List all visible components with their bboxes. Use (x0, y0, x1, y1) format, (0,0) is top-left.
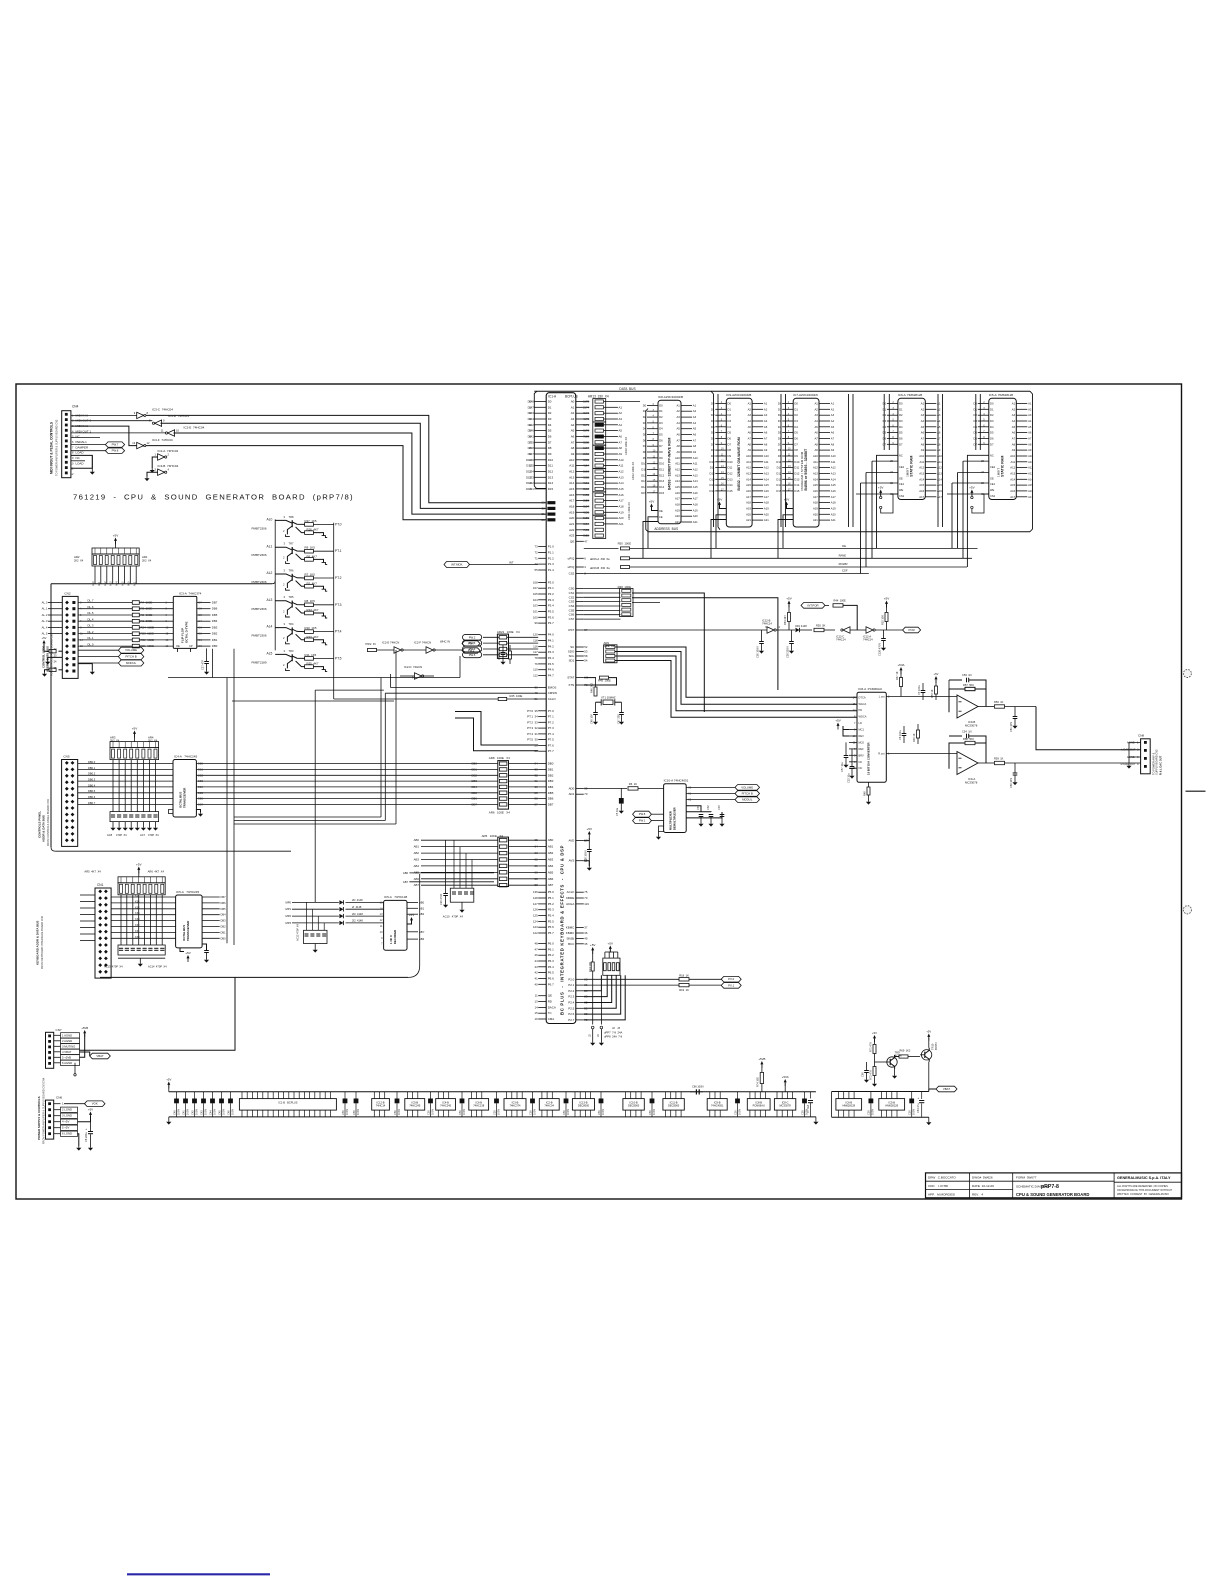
svg-text:A5: A5 (748, 425, 752, 429)
svg-text:30: 30 (542, 506, 546, 510)
svg-text:A22: A22 (569, 528, 575, 532)
svg-text:A9: A9 (676, 450, 680, 454)
svg-text:74HC14: 74HC14 (863, 638, 873, 642)
svg-text:100N: 100N (912, 1109, 916, 1115)
svg-text:C50: C50 (867, 1110, 871, 1115)
svg-text:A5: A5 (1028, 425, 1032, 429)
svg-text:A21: A21 (675, 520, 680, 524)
svg-text:A14: A14 (1010, 477, 1015, 481)
svg-text:CMA: CMA (548, 1017, 555, 1021)
svg-text:100N: 100N (176, 1109, 180, 1115)
svg-text:AR2: AR2 (74, 555, 80, 559)
svg-text:A7: A7 (693, 438, 697, 442)
decoder outputs (407, 901, 418, 903)
MIDI wire 1 (146, 415, 547, 502)
svg-text:100: 100 (533, 615, 538, 619)
ic1a data pins D0-D15 (534, 401, 546, 403)
inverter IC3-B 74HC04 (158, 469, 165, 475)
svg-text:D12: D12 (659, 473, 664, 477)
svg-text:DB0.5: DB0.5 (88, 789, 96, 793)
svg-text:P7.1: P7.1 (548, 715, 554, 719)
bias caps near opamp2 (903, 726, 905, 733)
svg-text:POR: POR (909, 628, 915, 632)
ground CN4 (71, 455, 92, 468)
svg-text:OE: OE (899, 476, 903, 480)
svg-text:+5V: +5V (884, 597, 890, 601)
svg-text:53: 53 (584, 650, 588, 654)
ic IC3-A 74HC374 octal flip flop (173, 596, 197, 648)
ic U-IC1-A BC PLUS cpu (546, 393, 576, 1024)
svg-text:R72 47K: R72 47K (869, 1070, 873, 1080)
AR2 column drops (94, 566, 96, 584)
svg-text:MP1: MP1 (285, 907, 291, 911)
svg-text:PCM69AU: PCM69AU (753, 1104, 765, 1108)
svg-text:13: 13 (380, 912, 383, 916)
svg-text:IC3-A 74HC374: IC3-A 74HC374 (179, 592, 202, 596)
svg-text:105: 105 (533, 592, 538, 596)
decoupling cap 13 (804, 1092, 806, 1099)
bus vertical pair 6 D-entry IC5 (975, 394, 977, 450)
svg-text:IC3-D 74HC04: IC3-D 74HC04 (168, 414, 189, 418)
svg-text:D10: D10 (728, 460, 733, 464)
svg-text:MC1: MC1 (859, 728, 865, 732)
svg-text:2I2 4148: 2I2 4148 (352, 919, 363, 923)
opamp2 output to R59 (978, 762, 994, 764)
svg-text:A6: A6 (571, 435, 575, 439)
svg-text:IC2-E 74HC04: IC2-E 74HC04 (184, 426, 205, 430)
svg-text:P5.2: P5.2 (548, 902, 554, 906)
svg-text:CKD I. KITRI: CKD I. KITRI (928, 1184, 948, 1188)
wire R/WE row with resistor aR23-A (576, 557, 584, 559)
svg-text:D3: D3 (990, 419, 994, 423)
svg-text:2: 2 (283, 663, 285, 667)
inverter IC12-C 74HC14 (843, 627, 850, 633)
svg-text:PMBT2306: PMBT2306 (252, 634, 267, 638)
svg-text:DL.0: DL.0 (88, 642, 94, 646)
svg-text:A8: A8 (1012, 442, 1016, 446)
svg-text:R6 4K7: R6 4K7 (307, 555, 318, 559)
svg-text:A15: A15 (569, 487, 575, 491)
svg-text:AB5: AB5 (548, 870, 554, 874)
svg-text:PMBT2306: PMBT2306 (252, 553, 267, 557)
svg-text:DB1: DB1 (212, 638, 218, 642)
svg-text:A4: A4 (921, 419, 925, 423)
svg-text:D3: D3 (974, 419, 978, 423)
svg-text:C50: C50 (908, 1110, 912, 1115)
svg-text:A8: A8 (676, 444, 680, 448)
svg-text:+5VA: +5VA (897, 663, 904, 667)
svg-text:49: 49 (584, 936, 588, 940)
svg-text:D5: D5 (883, 431, 887, 435)
svg-text:CN5: CN5 (63, 755, 69, 759)
svg-text:A10: A10 (937, 454, 942, 458)
svg-text:AR13 330 X4: AR13 330 X4 (588, 395, 609, 399)
svg-text:39: 39 (584, 786, 588, 790)
svg-text:D9: D9 (728, 454, 732, 458)
svg-text:REV: REV (859, 734, 865, 738)
svg-text:IC1-A: IC1-A (548, 395, 557, 399)
svg-text:DECODER: DECODER (393, 930, 397, 944)
svg-text:RD: RD (548, 1000, 552, 1004)
svg-text:C8 220u: C8 220u (84, 1132, 88, 1142)
svg-text:D9: D9 (548, 452, 552, 456)
svg-text:DTCA: DTCA (859, 695, 866, 699)
svg-text:100N: 100N (532, 1109, 536, 1115)
ic IC10-B DEC8000 power box (623, 1099, 644, 1111)
svg-text:D1: D1 (711, 407, 715, 411)
svg-text:D4: D4 (778, 425, 782, 429)
P7 bracket wires (455, 712, 538, 746)
svg-text:CS2: CS2 (899, 494, 905, 498)
svg-text:A17: A17 (1028, 495, 1033, 499)
svg-text:A11: A11 (569, 464, 574, 468)
svg-text:K33: K33 (135, 917, 140, 921)
svg-text:100N: 100N (652, 1109, 656, 1115)
svg-text:pRP7-8: pRP7-8 (1041, 1184, 1059, 1190)
battery ram rail (832, 1091, 929, 1093)
svg-text:P4.6: P4.6 (548, 668, 554, 672)
svg-text:104: 104 (533, 598, 538, 602)
svg-text:A21: A21 (764, 518, 769, 522)
tag VBAT cn7 (90, 1053, 111, 1059)
svg-text:D5: D5 (643, 433, 647, 437)
AB6 AB7 wires top (409, 872, 494, 874)
svg-text:C50: C50 (393, 1110, 397, 1115)
svg-text:DATE 10-12-00: DATE 10-12-00 (972, 1184, 994, 1188)
svg-text:A5: A5 (764, 425, 768, 429)
svg-text:A3: A3 (921, 413, 925, 417)
svg-text:A10: A10 (569, 458, 575, 462)
svg-text:1MBIT: 1MBIT (906, 468, 910, 477)
ic IC9 GM-WAVE ROM (726, 398, 752, 527)
svg-text:A14: A14 (937, 477, 942, 481)
svg-text:A4: A4 (937, 419, 941, 423)
svg-text:R25 100E: R25 100E (510, 694, 523, 698)
svg-text:D6: D6 (548, 435, 552, 439)
svg-text:A6: A6 (764, 431, 768, 435)
svg-text:70: 70 (584, 896, 588, 900)
svg-text:P3.1: P3.1 (548, 586, 554, 590)
svg-text:A21: A21 (831, 518, 836, 522)
svg-text:A12: A12 (619, 470, 624, 474)
svg-text:A1: A1 (1012, 402, 1016, 406)
svg-text:100N: 100N (871, 1109, 875, 1115)
svg-text:AB7: AB7 (403, 880, 409, 884)
svg-text:D15: D15 (728, 489, 733, 493)
svg-text:AB7: AB7 (548, 883, 554, 887)
svg-text:5 +5V: 5 +5V (62, 1126, 69, 1130)
ic IC3-A kb 74HC245 transceiver (176, 895, 203, 948)
svg-text:A3: A3 (676, 415, 680, 419)
svg-text:A19: A19 (569, 510, 575, 514)
svg-text:A14: A14 (813, 477, 818, 481)
ic IC4-A 74HC245 transceiver (173, 760, 196, 818)
svg-text:A20: A20 (764, 512, 769, 516)
ic IC8-A PCM69AU DAC (857, 692, 886, 782)
svg-text:D0: D0 (528, 400, 532, 404)
svg-text:D8: D8 (643, 450, 647, 454)
OE long verticals right (977, 547, 979, 549)
svg-text:D8: D8 (528, 446, 532, 450)
svg-text:D2: D2 (899, 413, 903, 417)
svg-text:J2 J3: J2 J3 (612, 1026, 620, 1030)
svg-text:D4: D4 (659, 427, 663, 431)
svg-text:A13: A13 (831, 472, 836, 476)
svg-text:D15: D15 (710, 489, 715, 493)
transistor TR9 BC547 (887, 1057, 897, 1067)
CN1 left pin wires (80, 894, 95, 896)
svg-text:ADDR & DATA BUS: ADDR & DATA BUS (42, 815, 46, 842)
svg-text:PT.3: PT.3 (527, 726, 533, 730)
ic IC5-A STATIC RAM (989, 398, 1017, 499)
svg-text:D11: D11 (777, 466, 782, 470)
svg-text:3: 3 (284, 515, 286, 519)
inverter IC12-A 74HC14 (866, 627, 873, 633)
bus vertical pair 2 (780, 394, 782, 527)
svg-text:+5V: +5V (42, 636, 47, 640)
svg-text:D2: D2 (990, 413, 994, 417)
svg-text:118: 118 (533, 639, 538, 643)
svg-text:D6: D6 (794, 437, 798, 441)
svg-text:6 LGND: 6 LGND (62, 1132, 72, 1136)
svg-text:D4: D4 (728, 425, 732, 429)
decoupling cap 9 (565, 1092, 567, 1099)
svg-text:CE2: CE2 (899, 465, 905, 469)
svg-text:D1: D1 (643, 409, 647, 413)
resistor column R4-R21 680R (132, 601, 139, 605)
svg-text:CS6: CS6 (569, 613, 575, 617)
ic IC5-B 74HC245 power box (405, 1099, 425, 1111)
svg-text:DB2: DB2 (212, 632, 218, 636)
svg-text:A9: A9 (748, 448, 752, 452)
svg-text:2: 2 (283, 636, 285, 640)
svg-text:73: 73 (535, 545, 539, 549)
svg-text:IC9-AZ3C32004/B: IC9-AZ3C32004/B (726, 393, 751, 397)
svg-text:P2.6: P2.6 (568, 1012, 574, 1016)
svg-text:PW.8: PW.8 (639, 812, 646, 816)
CN8 ground pins (1129, 743, 1141, 758)
svg-text:32: 32 (535, 726, 539, 730)
svg-text:A2: A2 (1028, 407, 1032, 411)
svg-text:A5: A5 (831, 425, 835, 429)
svg-text:DB0.0: DB0.0 (88, 760, 96, 764)
svg-text:+5V: +5V (784, 498, 790, 502)
svg-text:PW2 IN: PW2 IN (366, 642, 376, 646)
svg-text:100N: 100N (345, 1109, 349, 1115)
decoupling cap 4 (396, 1092, 398, 1099)
connector CN1 keyboard (95, 888, 111, 978)
svg-text:P5.0: P5.0 (548, 890, 554, 894)
svg-text:PITCH B: PITCH B (742, 792, 753, 796)
svg-text:DL.1: DL.1 (88, 636, 94, 640)
svg-text:MC33078: MC33078 (965, 723, 978, 727)
svg-text:C31: C31 (696, 805, 700, 810)
svg-text:P2.0: P2.0 (568, 977, 574, 981)
svg-text:P5.1: P5.1 (548, 896, 554, 900)
svg-text:100N: 100N (356, 1109, 360, 1115)
svg-text:D4: D4 (199, 619, 203, 623)
svg-text:D4: D4 (643, 427, 647, 431)
svg-text:P6.2: P6.2 (548, 953, 554, 957)
svg-text:A0: A0 (571, 400, 575, 404)
svg-text:D11: D11 (641, 468, 646, 472)
svg-text:A21: A21 (746, 518, 751, 522)
svg-text:A16: A16 (1010, 489, 1015, 493)
CN6 lgnd drop (78, 1134, 79, 1146)
svg-text:CN2: CN2 (64, 591, 70, 595)
svg-text:B4532 - 32MBIT GM-WAVE ROM: B4532 - 32MBIT GM-WAVE ROM (737, 437, 741, 490)
svg-text:AR1: AR1 (142, 555, 148, 559)
svg-text:A2: A2 (831, 407, 835, 411)
tag INT.POR (801, 603, 825, 609)
svg-text:R44 100E: R44 100E (834, 599, 847, 603)
svg-text:D1: D1 (883, 407, 887, 411)
svg-text:1 AGND: 1 AGND (62, 1033, 72, 1037)
svg-text:3: 3 (284, 542, 286, 546)
svg-text:31: 31 (535, 732, 539, 736)
svg-text:A13: A13 (813, 472, 818, 476)
svg-text:D11: D11 (794, 466, 799, 470)
svg-text:A15: A15 (831, 483, 836, 487)
svg-text:A8: A8 (571, 446, 575, 450)
MIDI wire 4 (146, 446, 547, 520)
mux other pins to caps (686, 806, 701, 812)
svg-text:INT: INT (509, 561, 514, 565)
svg-text:D6: D6 (990, 437, 994, 441)
svg-text:P7.2: P7.2 (548, 720, 554, 724)
svg-text:DL.2: DL.2 (88, 630, 94, 634)
svg-text:A12: A12 (693, 468, 698, 472)
svg-text:10: 10 (380, 930, 383, 934)
svg-text:122: 122 (533, 931, 538, 935)
svg-text:REV. 4: REV. 4 (972, 1192, 983, 1196)
svg-text:PW.1: PW.1 (468, 649, 475, 653)
svg-text:D7: D7 (528, 440, 532, 444)
CN2 DL wires to resistor column (78, 602, 132, 604)
svg-text:C5 100u: C5 100u (917, 685, 921, 695)
svg-text:A15: A15 (937, 483, 942, 487)
svg-text:A17: A17 (764, 495, 769, 499)
svg-text:D7: D7 (883, 442, 887, 446)
svg-text:CALO: CALO (548, 697, 557, 701)
ic1a AVD pin with cap C38 (576, 840, 584, 842)
svg-text:C8 100u: C8 100u (898, 730, 902, 740)
svg-text:DB2: DB2 (221, 925, 227, 929)
IC5-A control wires (967, 455, 988, 567)
svg-text:2I0 4148: 2I0 4148 (352, 912, 363, 916)
svg-text:DB3: DB3 (221, 919, 227, 923)
svg-text:QE: QE (548, 994, 552, 998)
svg-text:A14: A14 (746, 477, 751, 481)
ic1a DB pins with resistor grid AR8 (538, 763, 546, 765)
svg-text:K32: K32 (135, 923, 140, 927)
svg-text:1: 1 (155, 453, 157, 457)
tag VOK (85, 1101, 106, 1107)
svg-text:DEC8000: DEC8000 (578, 1104, 590, 1108)
svg-text:KBME: KBME (566, 896, 574, 900)
svg-text:PT.5: PT.5 (335, 656, 342, 660)
svg-text:A20: A20 (569, 516, 575, 520)
svg-text:A1: A1 (748, 402, 752, 406)
IC3-A kb enable ground (180, 948, 184, 952)
svg-text:23: 23 (54, 653, 57, 657)
svg-text:CP: CP (189, 644, 193, 648)
svg-text:A4: A4 (676, 421, 680, 425)
svg-text:18 BIT D/A CONVERTER: 18 BIT D/A CONVERTER (867, 742, 871, 775)
svg-text:A4: A4 (748, 419, 752, 423)
svg-text:D3: D3 (548, 417, 552, 421)
svg-text:P2.3: P2.3 (568, 995, 574, 999)
svg-text:D3: D3 (528, 417, 532, 421)
svg-text:A15: A15 (919, 483, 924, 487)
svg-text:3 MUTING: 3 MUTING (62, 1044, 75, 1048)
svg-text:136: 136 (533, 890, 538, 894)
mux ground hook (659, 826, 664, 832)
svg-text:DB5: DB5 (221, 907, 227, 911)
svg-text:A5: A5 (619, 429, 623, 433)
inverter IC3-F 74HC04 (137, 442, 144, 448)
svg-text:A9: A9 (619, 452, 623, 456)
svg-text:D8: D8 (728, 448, 732, 452)
svg-text:14: 14 (535, 1005, 539, 1009)
svg-text:A6: A6 (937, 431, 941, 435)
svg-text:R46 2K2: R46 2K2 (589, 682, 593, 693)
svg-text:STATIC RAM: STATIC RAM (1001, 456, 1005, 477)
svg-text:A9: A9 (831, 448, 835, 452)
svg-text:A8: A8 (748, 442, 752, 446)
svg-text:DEC8000: DEC8000 (628, 1104, 640, 1108)
decoupling cap 5 (430, 1092, 432, 1099)
svg-text:AR6 100E X4: AR6 100E X4 (489, 811, 510, 815)
svg-text:NC: NC (76, 435, 81, 439)
svg-text:D1: D1 (899, 407, 903, 411)
svg-text:9: 9 (381, 936, 383, 940)
svg-text:D10: D10 (526, 458, 532, 462)
svg-text:P5.5: P5.5 (548, 919, 554, 923)
svg-text:100N: 100N (737, 1109, 741, 1115)
svg-text:43: 43 (535, 965, 539, 969)
svg-text:D1: D1 (990, 407, 994, 411)
svg-text:J2: J2 (588, 1034, 592, 1037)
svg-text:R33 4K7: R33 4K7 (307, 635, 319, 639)
svg-text:C5 10u: C5 10u (615, 807, 619, 816)
ic1a control pins bottom (538, 995, 546, 997)
svg-text:uP/Q: uP/Q (568, 565, 575, 569)
svg-text:A8: A8 (831, 442, 835, 446)
svg-text:+5V: +5V (786, 597, 792, 601)
svg-text:5 +5VB: 5 +5VB (62, 1055, 71, 1059)
wire ROWR row with resistor aR23-B (576, 566, 584, 568)
svg-text:R7 1K5: R7 1K5 (305, 572, 316, 576)
svg-text:C50: C50 (648, 1110, 652, 1115)
svg-text:D8: D8 (778, 448, 782, 452)
svg-text:A8: A8 (814, 442, 818, 446)
svg-text:A13: A13 (569, 475, 575, 479)
svg-text:470P X4: 470P X4 (148, 833, 159, 837)
svg-text:IC5-A 74HC138: IC5-A 74HC138 (384, 895, 407, 899)
svg-text:PW.7: PW.7 (468, 642, 475, 646)
svg-text:L.out: L.out (879, 695, 885, 699)
svg-text:D9: D9 (711, 454, 715, 458)
svg-text:DB0: DB0 (198, 762, 204, 766)
svg-text:A4: A4 (619, 423, 623, 427)
svg-text:A3: A3 (831, 413, 835, 417)
svg-text:PMBT2306: PMBT2306 (252, 580, 267, 584)
svg-text:D2: D2 (711, 413, 715, 417)
svg-text:A16: A16 (1028, 489, 1033, 493)
svg-text:PT.1: PT.1 (335, 549, 342, 553)
PT vertical line (333, 523, 335, 699)
